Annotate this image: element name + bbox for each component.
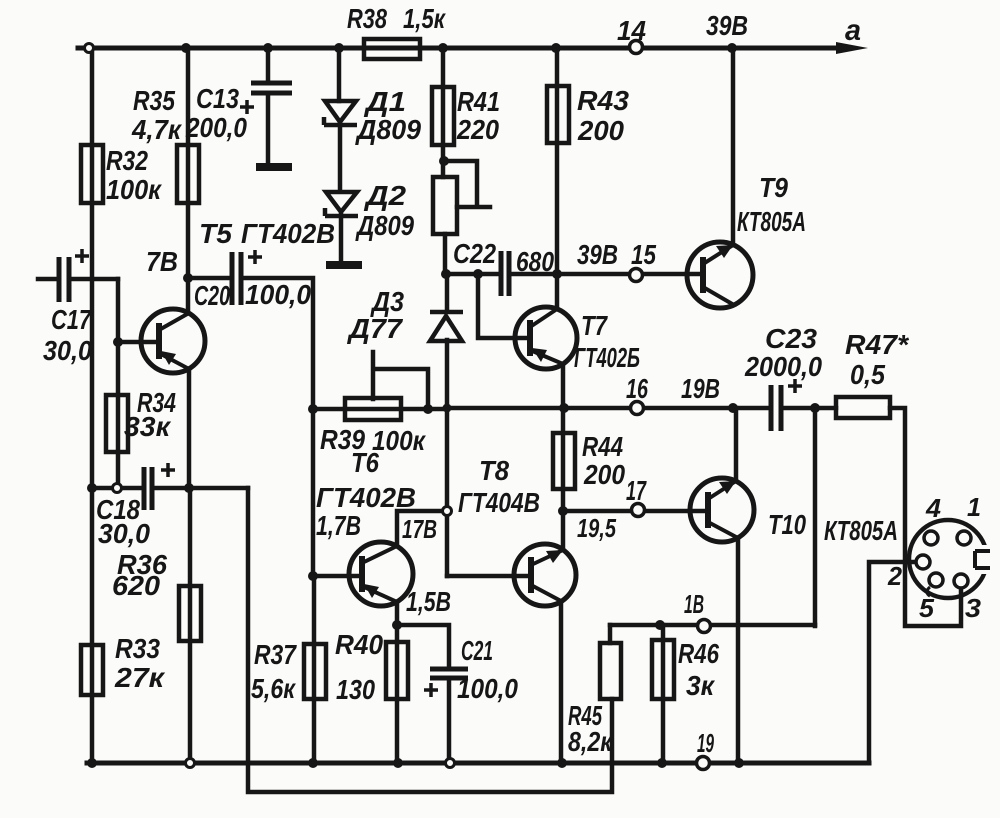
wire: +39V top rail [78, 46, 838, 51]
transistor T6 GT402V [349, 542, 413, 606]
svg-text:19,5: 19,5 [577, 513, 616, 543]
svg-text:7В: 7В [146, 246, 178, 277]
resistor R41 220 [432, 87, 454, 145]
resistor R35 4.7k [177, 145, 199, 203]
node: rail / left bus [85, 44, 94, 53]
svg-text:30,0: 30,0 [98, 518, 150, 549]
wire: C13 top stem [266, 48, 271, 81]
wire: R36 column [188, 488, 193, 763]
svg-text:1,7В: 1,7В [316, 510, 361, 541]
node: T9 emitter / T10 collector output [728, 403, 738, 413]
resistor R47 0.5 [836, 397, 890, 418]
wire: T6 collector up to 17V corner [397, 511, 447, 546]
svg-text:ГТ402В: ГТ402В [241, 218, 335, 249]
wire: D1/D2 zener column from rail [337, 48, 342, 101]
wire: C18 line left segment [92, 486, 144, 491]
plus sign C21 [424, 683, 438, 697]
svg-text:14: 14 [617, 15, 646, 46]
capacitor C22 680 [501, 251, 509, 296]
svg-text:C20: C20 [194, 280, 230, 311]
plus sign C18 [161, 463, 175, 477]
transistor T8 GT404V [514, 544, 576, 606]
plus sign C20 [248, 250, 262, 264]
resistor R36 620 [179, 586, 201, 641]
node: rail / R35 [181, 43, 191, 53]
wire: D3 cathode down to T8 base corner [445, 340, 450, 576]
transistor T10 KT805A [690, 478, 754, 542]
svg-text:C23: C23 [765, 323, 817, 354]
transistor T9 KT805A [687, 242, 753, 308]
svg-text:100,0: 100,0 [245, 279, 311, 310]
node: C20 line / R39 left [308, 404, 318, 414]
svg-text:200,0: 200,0 [185, 112, 247, 143]
node: bottom rail / T10 emitter [734, 758, 744, 768]
wire: left bias bus vertical (R32/R33 column) [90, 48, 95, 763]
svg-text:R41: R41 [457, 86, 500, 117]
wire: C21 branch [397, 625, 449, 667]
resistor R39 100k (with tap) [345, 398, 401, 420]
wire: T5 base column / R34 column [116, 279, 121, 488]
svg-text:R35: R35 [133, 85, 175, 116]
svg-text:30,0: 30,0 [43, 335, 92, 366]
svg-text:39В: 39В [577, 239, 618, 270]
wire: feedback line down and across bottom [248, 488, 612, 792]
svg-text:R44: R44 [582, 431, 623, 462]
svg-text:220: 220 [456, 114, 499, 145]
wire: T5 emitter down to C18 node [187, 369, 192, 488]
node: left bus / C18 line [87, 483, 97, 493]
wire: T8 collector down to bottom rail [559, 601, 564, 763]
svg-text:100к: 100к [372, 425, 427, 456]
svg-text:C21: C21 [461, 635, 493, 666]
svg-text:17: 17 [626, 475, 647, 506]
svg-text:200: 200 [577, 115, 624, 146]
wire: T10 collector [734, 408, 739, 481]
node: R43 / T7 collector / C22 line [552, 269, 562, 279]
resistor R46 3k [652, 640, 674, 699]
svg-text:16: 16 [626, 373, 648, 404]
svg-text:4: 4 [925, 493, 942, 523]
node: R44 bottom / T8 emitter / 17 row [558, 506, 568, 516]
transistor T7 GT402B [515, 307, 577, 369]
resistor R38 1.5k [364, 39, 420, 59]
wire: R44 column [561, 408, 566, 511]
node: rail / T9 collector [727, 43, 737, 53]
node: bottom rail / T8 collector [557, 758, 567, 768]
svg-text:R47*: R47* [845, 329, 909, 360]
wire: T9 collector to rail [731, 48, 736, 245]
svg-text:R37: R37 [254, 639, 297, 670]
node: 17V junction (T6 collector / D3 line) [443, 507, 452, 516]
wire: 17 node row to T10 base [563, 509, 708, 514]
node: R34 bottom on C18 line [113, 484, 122, 493]
DIN pin 5 [929, 573, 943, 587]
wire: T6 emitter node column (R40) [395, 602, 400, 763]
svg-text:8,2к: 8,2к [568, 726, 613, 757]
node: bottom rail / R46 [657, 758, 667, 768]
wire: C20 right lead and T6 base column [241, 278, 313, 576]
node: R41 / trimmer junction [439, 156, 449, 166]
wire: C23/R47 junction drop to 1V row [813, 408, 818, 626]
wire: T7 emitter down to R44 node [561, 364, 566, 408]
svg-text:C13: C13 [196, 83, 239, 114]
wire: R37 column [312, 576, 317, 763]
svg-text:R33: R33 [115, 633, 160, 664]
svg-text:Д809: Д809 [355, 210, 414, 241]
wire: D3 anode stem [445, 274, 450, 311]
DIN pin 4 [924, 531, 938, 545]
svg-text:Т8: Т8 [479, 455, 509, 486]
open terminal circles [630, 41, 711, 770]
node: T5 emitter / C18 / R36 [184, 483, 194, 493]
transistor T5 GT402V [141, 309, 205, 373]
svg-text:ГТ404В: ГТ404В [458, 487, 540, 518]
wire: trimmer wiper bracket [444, 161, 490, 207]
capacitor C20 100.0 [232, 252, 241, 305]
wire: T6 base wire [313, 574, 362, 579]
svg-text:130: 130 [336, 674, 375, 705]
wire: T8 emitter up to 17 node [561, 511, 566, 550]
wire: R47 right lead and drop to DIN pin 3 [890, 408, 961, 626]
DIN speaker connector [909, 520, 987, 598]
wire: R39 row [313, 407, 447, 412]
wire: C23 right lead [781, 406, 836, 411]
svg-text:Т7: Т7 [581, 310, 608, 341]
terminal 1V [698, 620, 711, 633]
svg-text:100,0: 100,0 [457, 673, 518, 704]
node: T5 base / C17 / R34 [113, 337, 123, 347]
capacitor C23 2000.0 [771, 385, 781, 431]
wire: R46 column [661, 625, 666, 763]
resistor R45 8.2k [600, 643, 621, 699]
svg-text:27к: 27к [114, 662, 166, 693]
svg-text:Т9: Т9 [759, 172, 788, 203]
svg-text:R38: R38 [347, 3, 387, 34]
svg-text:5: 5 [919, 593, 935, 623]
node: bottom rail / R40 [393, 758, 403, 768]
svg-text:R32: R32 [106, 145, 148, 176]
node: rail / R43 [551, 43, 561, 53]
svg-text:Т6: Т6 [351, 447, 379, 478]
wire: 1V node row [610, 623, 815, 628]
wire: R41 column from rail [441, 48, 446, 177]
svg-text:1,5к: 1,5к [403, 3, 446, 34]
svg-text:200: 200 [583, 459, 625, 490]
node: rail / R41 [438, 43, 448, 53]
terminal 17 [632, 504, 645, 517]
svg-text:КТ805А: КТ805А [824, 515, 898, 546]
terminal 16 [631, 402, 644, 415]
node: R46 top on 1V row [655, 620, 665, 630]
svg-text:Д77: Д77 [347, 313, 404, 344]
svg-text:C17: C17 [51, 304, 92, 335]
svg-text:2000,0: 2000,0 [744, 351, 822, 382]
trimmer resistor (preset) below R41 [433, 177, 457, 234]
node: D3 line / output row [443, 404, 452, 413]
wire: C17 left lead [38, 277, 59, 282]
capacitor C13 200.0 (plates and polarity) [251, 83, 292, 93]
plus sign C13 [240, 100, 254, 114]
wire: C22 node line right part to T9 base [509, 272, 703, 277]
wire: C17 right lead to base node [69, 277, 118, 282]
resistor R40 130 [386, 642, 408, 699]
node: T7 emitter / R44 top [559, 403, 569, 413]
svg-text:ГТ402Б: ГТ402Б [574, 342, 640, 373]
wire: T5 base wire [118, 340, 159, 345]
node: bottom rail / R37 [308, 758, 318, 768]
svg-text:4,7к: 4,7к [131, 114, 183, 145]
svg-text:620: 620 [112, 570, 160, 601]
ground below C13 [256, 163, 292, 171]
resistor R43 200 [547, 86, 569, 143]
node: T6 base junction [308, 571, 318, 581]
wire: R39 tap bracket [373, 352, 428, 409]
svg-text:КТ805А: КТ805А [737, 206, 806, 237]
resistor R44 200 [553, 433, 575, 489]
svg-text:680: 680 [516, 246, 554, 277]
DIN pin 5 tail mark [927, 587, 930, 596]
svg-text:19: 19 [697, 728, 714, 758]
node: bottom rail / C21 [446, 759, 455, 768]
wire: R35 / T5 collector column [186, 48, 191, 313]
wire: T8 base wire [447, 574, 531, 579]
diode D3 D77 [430, 312, 463, 341]
svg-text:R46: R46 [678, 638, 719, 669]
DIN pin 3 [954, 574, 968, 588]
svg-text:a: a [845, 14, 861, 47]
wire: C20 left lead [188, 276, 232, 281]
wire: between D1 and D2 [338, 124, 343, 191]
node: C23 / R47 junction [810, 403, 820, 413]
wire: trimmer bottom to C22 node [443, 234, 448, 274]
svg-text:1,5В: 1,5В [406, 586, 451, 617]
svg-text:15: 15 [631, 239, 656, 270]
terminal 15 [630, 269, 643, 282]
node: rail / D1 [334, 43, 344, 53]
node: T6 emitter / R40 / C21 [392, 620, 402, 630]
svg-text:Д2: Д2 [364, 180, 407, 211]
plus sign C17 [75, 249, 89, 263]
wire: R45 top lead [608, 625, 613, 643]
capacitor C17 30.0 [59, 257, 69, 302]
svg-text:Т5: Т5 [199, 218, 232, 249]
svg-text:Д1: Д1 [364, 86, 406, 117]
svg-text:2: 2 [887, 561, 902, 591]
wire: R43 / T7 collector column [555, 48, 560, 309]
wire: bottom rail (ground return) [87, 761, 869, 766]
resistor R34 33k [106, 395, 128, 452]
node: T7 base tap on C22 line [473, 269, 483, 279]
node: bottom rail / R36 [186, 759, 195, 768]
node a: arrowhead of top rail output [836, 42, 868, 54]
svg-text:100к: 100к [106, 174, 163, 205]
terminal 14 [630, 41, 643, 54]
wire: C22 node line left part [445, 272, 501, 277]
svg-text:Д809: Д809 [355, 114, 421, 145]
resistor R33 27k [81, 645, 103, 695]
svg-text:C22: C22 [453, 238, 496, 269]
wire: C21 bottom stem [447, 680, 452, 763]
zener diode D2 D809 [325, 192, 358, 216]
node: 7V node (R35/T5/C20) [183, 273, 193, 283]
zener diode D1 D809 [324, 101, 357, 125]
svg-text:Т10: Т10 [768, 509, 806, 540]
resistor R32 100k [81, 145, 103, 203]
wire: T10 emitter down to bottom rail [736, 538, 741, 763]
ground below D2 [326, 261, 362, 269]
capacitor C21 100.0 [430, 669, 468, 678]
wire: T7 base corner [478, 274, 530, 338]
wire: D2 cathode to ground [339, 215, 344, 261]
svg-text:R43: R43 [577, 85, 629, 116]
wire: C18 line right segment [152, 486, 248, 491]
svg-text:33к: 33к [124, 411, 172, 442]
svg-text:0,5: 0,5 [850, 359, 885, 390]
svg-text:5,6к: 5,6к [251, 673, 296, 704]
svg-text:1В: 1В [684, 589, 704, 619]
resistor R37 5.6k [304, 644, 326, 699]
capacitor C18 30.0 [144, 467, 152, 510]
svg-text:R40: R40 [335, 629, 383, 660]
terminal 19 [697, 757, 710, 770]
wire: riser to DIN pin 2 [869, 562, 915, 763]
DIN pin 1 [957, 531, 971, 545]
wire: main output node row (16 / 19V) [447, 406, 771, 411]
svg-text:ГТ402В: ГТ402В [316, 482, 416, 513]
node: R39 tap / right lead [423, 404, 433, 414]
svg-text:3: 3 [965, 593, 982, 623]
plus sign C23 [788, 379, 802, 393]
svg-text:3к: 3к [686, 670, 716, 701]
svg-text:19В: 19В [681, 373, 720, 404]
DIN pin 2 [916, 555, 930, 569]
wire: C13 bottom stem to ground [266, 95, 271, 163]
svg-text:17В: 17В [402, 514, 437, 544]
svg-text:1: 1 [967, 492, 981, 522]
node: trimmer / C22 line [441, 269, 451, 279]
svg-text:39В: 39В [706, 10, 748, 41]
node: rail / C13 [263, 43, 273, 53]
node: bottom rail / left bus [87, 758, 97, 768]
